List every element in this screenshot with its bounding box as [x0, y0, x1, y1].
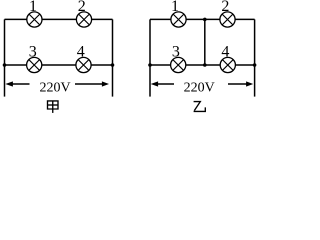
- dimension arrow right (right circuit): [228, 81, 253, 86]
- svg-text:4: 4: [221, 44, 229, 61]
- lamp R3 (right circuit): [171, 57, 186, 72]
- lamp R1 (right circuit): [171, 12, 186, 27]
- wire: right circuit top horizontal: [150, 18, 255, 20]
- dimension arrow left (left circuit): [5, 81, 29, 86]
- svg-text:3: 3: [172, 44, 180, 61]
- svg-text:3: 3: [29, 44, 37, 61]
- junction: right circuit top-center: [203, 18, 207, 22]
- dimension arrow right (left circuit): [75, 81, 109, 86]
- svg-text:220V: 220V: [39, 80, 70, 95]
- label 4 (left circuit): [77, 44, 85, 61]
- svg-text:4: 4: [77, 44, 85, 61]
- lamp L4 (left circuit): [76, 57, 91, 72]
- junction: right circuit middle-left: [148, 63, 152, 67]
- dimension arrow left (right circuit): [151, 81, 174, 86]
- svg-text:1: 1: [29, 0, 37, 15]
- lamp R4 (right circuit): [220, 57, 235, 72]
- label 乙 (right circuit name): [194, 102, 206, 112]
- lamp L3 (left circuit): [27, 57, 42, 72]
- wire: left circuit middle horizontal: [5, 64, 113, 66]
- wire: right circuit left vertical: [149, 19, 151, 96]
- label 4 (right circuit): [221, 44, 229, 61]
- wire: left circuit right vertical: [112, 19, 114, 96]
- label 1 (right circuit): [171, 0, 179, 15]
- label 甲 (left circuit name): [48, 101, 59, 113]
- lamp L1 (left circuit): [27, 12, 42, 27]
- label 3 (right circuit): [172, 44, 180, 61]
- junction: right circuit middle-center: [203, 63, 207, 67]
- wire: right circuit center vertical: [204, 19, 206, 65]
- svg-text:2: 2: [221, 0, 229, 15]
- wire: right circuit right vertical: [254, 19, 256, 96]
- junction: right circuit middle-right: [253, 63, 257, 67]
- lamp L2 (left circuit): [76, 12, 91, 27]
- svg-text:1: 1: [171, 0, 179, 15]
- label 3 (left circuit): [29, 44, 37, 61]
- svg-text:220V: 220V: [184, 80, 215, 95]
- wire: right circuit middle horizontal: [150, 64, 255, 66]
- lamp R2 (right circuit): [220, 12, 235, 27]
- junction: left circuit middle-left: [3, 63, 7, 67]
- label 2 (right circuit): [221, 0, 229, 15]
- wire: left circuit left vertical: [4, 19, 6, 96]
- value label 220V (right circuit): [184, 80, 215, 95]
- svg-text:2: 2: [78, 0, 86, 15]
- value label 220V (left circuit): [39, 80, 70, 95]
- junction: left circuit middle-right: [111, 63, 115, 67]
- wire: left circuit top horizontal: [5, 18, 113, 20]
- label 2 (left circuit): [78, 0, 86, 15]
- label 1 (left circuit): [29, 0, 37, 15]
